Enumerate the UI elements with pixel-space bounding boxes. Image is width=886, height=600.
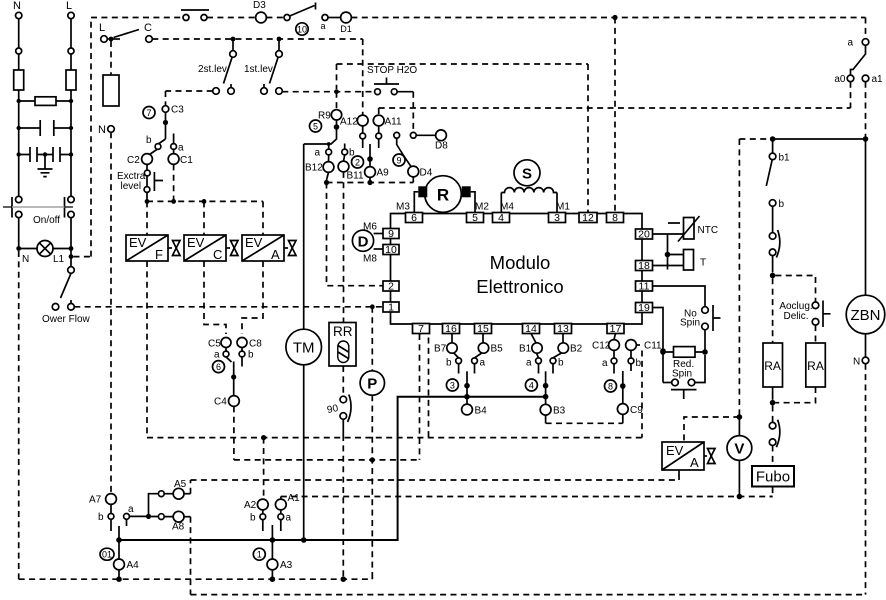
svg-text:4: 4 [498,212,504,224]
svg-text:A12: A12 [340,117,358,128]
svg-text:2: 2 [355,157,360,167]
inductor S winding [501,188,557,213]
svg-text:8: 8 [608,381,613,391]
pin 15 [475,323,492,335]
bus bottom 2 [191,594,865,596]
contact a [214,350,232,363]
motor TM [286,329,322,365]
node [341,576,347,582]
svg-text:2: 2 [388,280,394,292]
node [109,37,114,42]
wire RA1 feed [772,278,774,343]
svg-text:N: N [22,254,29,265]
bus C4/P/pin7 [234,459,420,461]
motor S [500,160,570,213]
wire to Fubo switch [772,406,774,423]
wire RA1 bottom [772,387,774,400]
pin 19 [636,302,653,314]
svg-text:C: C [213,247,222,262]
svg-text:D8: D8 [435,141,448,152]
pressure sensor P [360,371,384,395]
node [17,126,21,130]
svg-text:V: V [734,441,744,458]
svg-text:R: R [437,186,449,205]
electrovalve EV A2 [662,442,715,470]
wire [266,17,284,19]
motor TM wire [303,144,305,329]
svg-text:1st.lev: 1st.lev [244,64,273,75]
bus A5 line [191,479,680,481]
pin 5 [467,212,484,224]
wire dashed corner to V line [739,139,769,417]
svg-text:17: 17 [610,323,622,335]
wire a to A5/A8 [129,494,158,517]
node [327,142,331,146]
node [737,494,743,500]
node [660,349,666,355]
svg-text:a: a [847,38,853,49]
svg-text:a: a [526,358,532,369]
bus top L1 line [91,17,181,19]
wire pin11 to No Spin [653,286,706,307]
wire to Aoclug switch [775,276,815,302]
pin 8 [607,212,624,224]
pin 2 [383,280,399,292]
svg-text:EV: EV [129,235,147,250]
wire P feed [371,307,373,371]
thermistor NTC [668,216,718,242]
node [277,37,282,42]
svg-text:b: b [250,513,256,524]
node V top [737,414,743,420]
svg-text:D4: D4 [420,168,433,179]
pushbutton No Spin [680,305,721,331]
svg-text:Spin: Spin [680,318,700,329]
node [261,435,266,440]
svg-text:C8: C8 [249,339,262,350]
node [770,136,776,142]
wire [107,38,120,40]
wire D to pin9 [374,233,383,235]
contact b [239,350,254,367]
svg-text:A11: A11 [385,117,402,128]
thermostat T [684,250,707,271]
svg-text:01: 01 [102,549,112,559]
wire dashed to bottom bus [342,435,344,579]
contact a [320,15,328,32]
svg-text:a: a [315,148,321,159]
svg-text:C11: C11 [644,341,662,352]
node [543,383,549,389]
svg-text:C5: C5 [208,339,221,350]
label Modulo Elettronico [476,252,563,297]
switch 10 [284,3,316,36]
switch 9 [394,132,416,166]
contact b [769,199,784,233]
node [464,383,470,389]
node [202,199,207,204]
pushbutton Red Spin [663,355,705,399]
svg-text:C9: C9 [630,405,643,416]
wire EV A to C8 [242,261,263,334]
svg-text:STOP H2O: STOP H2O [367,65,417,76]
svg-text:A: A [271,247,280,262]
wire common to C4 [233,362,235,396]
svg-text:A4: A4 [127,560,140,571]
wire C4 down [233,406,235,460]
wire common 8 [622,371,624,403]
switch 90 [326,395,351,423]
wire top bus corner to a [865,18,867,39]
wire R to pin5 [471,192,475,213]
svg-text:b: b [98,512,104,523]
svg-text:RA: RA [807,359,824,373]
wire 90 down [342,419,344,435]
wire [19,90,71,155]
svg-text:B7: B7 [434,344,447,355]
wire [704,330,706,352]
svg-text:20: 20 [638,228,650,240]
wire a1 down [865,82,867,139]
contact b [146,135,161,149]
contact a [526,358,541,374]
svg-text:M6: M6 [363,222,377,233]
wire A5 to bus [190,480,192,494]
contact b [628,358,641,371]
node [770,273,776,279]
svg-text:b1: b1 [779,153,791,164]
wire pin19 down [653,308,664,383]
contact B2 [553,334,583,358]
svg-text:19: 19 [638,302,650,314]
svg-text:5: 5 [313,121,318,131]
contact B4 [462,404,488,416]
node [17,152,21,156]
diode D8 [416,130,448,152]
switch blade [766,160,772,186]
svg-text:a: a [602,358,608,369]
contact A8 [172,511,191,532]
wire to EV A2 [684,417,739,442]
wire EV C feed [203,201,205,235]
switch 7 blade [159,139,166,144]
contact box dashed border [429,338,643,438]
switch Ower Flow [42,267,91,325]
wire A12 feed [362,39,364,115]
bus EV supply [147,200,263,202]
node [370,457,375,462]
svg-text:a: a [320,21,325,31]
pressure switch 1st.lev [244,39,282,94]
switch a/a0/a1 [834,38,883,86]
svg-text:Elettronico: Elettronico [476,276,563,297]
contact C2 [127,150,157,167]
circle label 01 [100,548,114,560]
wire to switch9 [412,92,414,133]
diode D4 [408,166,433,182]
wire RA2 feed [815,325,817,343]
wire A2 feed [263,438,265,498]
svg-text:12: 12 [582,212,594,224]
thermal contact Fubo [769,420,780,448]
svg-text:Modulo: Modulo [490,252,551,273]
motor D tachometer [352,222,377,265]
wire pin20 to NTC [653,233,684,235]
svg-text:15: 15 [477,323,489,335]
thermal contact [769,230,780,273]
wire [207,17,256,19]
svg-text:b: b [558,358,564,369]
wire [70,250,72,267]
wire common 1 [271,525,273,540]
svg-text:EV: EV [187,235,205,250]
capacitor C-Y left [19,147,45,162]
lamp L1 [19,241,71,266]
svg-text:6: 6 [216,362,221,372]
svg-text:Spin: Spin [672,369,692,380]
svg-text:M3: M3 [396,202,410,213]
contact C9 [617,404,643,424]
svg-text:B12: B12 [305,163,323,174]
svg-text:Delic.: Delic. [783,311,808,322]
diode D1 [340,12,352,34]
fuse N side [103,41,119,106]
bus top to right [351,17,865,19]
pin 12 [579,212,597,224]
svg-text:b: b [446,358,452,369]
module outline [391,214,643,325]
pin 3 [549,212,566,224]
svg-text:A1: A1 [288,493,301,504]
wire stub [118,526,120,540]
bus bottom 1 [19,577,373,579]
node [69,246,74,251]
wire C1 down [173,164,175,201]
wire dashed B3-C9 [546,422,623,424]
wire N down [865,364,867,595]
svg-text:M2: M2 [475,202,489,213]
electrovalve EV A [242,235,296,262]
svg-text:7: 7 [418,323,424,335]
pin 18 [636,260,653,272]
contact R9 [318,92,342,122]
svg-text:T: T [700,258,706,269]
wire left border dashed [18,251,20,579]
wire A11 top [378,108,380,115]
contact B7 [434,334,459,358]
svg-text:4: 4 [529,380,534,390]
node [69,99,73,103]
svg-text:D3: D3 [253,0,266,11]
wire bus to pin2 [327,183,383,286]
svg-text:B4: B4 [475,406,488,417]
wire dashed link to top box [74,18,92,257]
bus L-C to levels [152,38,362,40]
contact A2 [244,499,268,511]
node [270,537,276,543]
bus pin12 box top [337,64,589,213]
connector [158,491,164,497]
resistor Red Spin bypass [663,347,705,358]
contact a [602,358,617,374]
pressure switch 2st.lev [198,39,236,94]
svg-text:Ower Flow: Ower Flow [42,314,91,325]
connector N [16,48,22,54]
contact C11 [626,340,662,358]
node [770,400,776,406]
mains terminal N [13,0,22,19]
svg-text:B5: B5 [491,344,504,355]
svg-text:5: 5 [472,212,478,224]
pushbutton Exctra level [117,164,163,201]
node [16,246,21,251]
svg-text:10: 10 [297,24,307,34]
pin 14 [523,323,540,335]
node [863,136,869,142]
svg-text:10: 10 [385,244,397,256]
wire B11 to RR [343,172,345,323]
wire [164,493,173,495]
wire [331,120,337,145]
svg-text:D: D [358,234,369,251]
svg-text:B1: B1 [519,344,532,355]
contact A7 [89,494,116,506]
svg-text:a: a [214,350,220,361]
pin 20 [636,228,653,240]
node [543,394,549,400]
contact B3 [540,404,565,416]
contact C12 [592,334,619,359]
svg-text:B11: B11 [347,171,364,182]
svg-text:3: 3 [450,380,455,390]
pushbutton STOP H2O [367,65,417,95]
wire [151,516,173,518]
resistor RA [806,343,826,387]
wire L drop [70,19,72,48]
contact C3 [162,105,184,116]
contact A5 [173,479,190,499]
contact A3 [267,540,293,579]
svg-text:2st.lev: 2st.lev [198,64,227,75]
contact A4 [114,540,140,579]
circle label 5 [310,120,322,132]
node [146,514,151,519]
contact A11 [373,115,402,148]
wire pin12 up covered, pin8 up [614,18,616,213]
svg-text:M8: M8 [363,254,377,265]
circle label 8 [605,380,617,392]
contact a [315,144,332,159]
contact C5 [208,338,231,352]
svg-text:N: N [13,0,21,12]
wire [328,17,341,19]
contact C4 [214,396,239,408]
wire EV C to C5 [204,261,226,334]
contact a [171,134,184,154]
node [116,537,122,543]
svg-text:A8: A8 [172,522,185,533]
pushbutton bridge [181,10,209,21]
contact a [124,504,134,526]
wire B12 to bus [327,172,329,180]
wire [770,446,773,497]
bus 1st.lev to R9/STOP [282,91,374,93]
pin 10 [383,244,399,256]
wire a0 down [850,82,852,108]
node [231,37,236,42]
node [69,152,73,156]
electrovalve EV C [184,235,238,262]
svg-text:1: 1 [257,550,262,560]
svg-text:a1: a1 [872,74,884,85]
pin 17 [607,323,624,335]
wire B3 link to C9 [545,415,547,423]
main bus solid [119,397,546,540]
terminal N [853,357,869,368]
wire pin18 to T [653,265,684,267]
pin 13 [555,323,572,335]
wire RR to 90 [342,366,344,396]
svg-text:EV: EV [666,443,684,458]
svg-text:C2: C2 [127,155,140,166]
bus a0 line [379,107,851,109]
relay RR [329,323,356,367]
contact b [550,358,564,374]
contact A1 [275,493,300,510]
node [620,383,626,389]
contact A9 [365,144,390,183]
node [43,152,47,156]
svg-text:R9: R9 [318,111,331,122]
node [171,199,176,204]
fuse Fubo [752,466,794,487]
contact B1 [519,334,542,358]
resistor (interference filter) [19,97,71,106]
circle label 1 [253,548,265,560]
svg-text:b: b [248,350,254,361]
svg-text:9: 9 [388,228,394,240]
svg-text:RR: RR [333,324,353,339]
wire N drop [18,19,20,48]
node [116,576,122,582]
pin 9 [383,228,399,240]
svg-text:A3: A3 [280,560,293,571]
svg-text:a: a [480,358,486,369]
fuse F-N [14,70,24,90]
contact B5 [475,334,504,358]
node [270,576,276,582]
svg-text:M1: M1 [556,202,570,213]
svg-text:1: 1 [388,301,394,313]
svg-text:7: 7 [146,108,151,118]
mains terminal L [66,0,74,19]
switch L/C line selector [99,22,152,42]
svg-text:C: C [144,22,152,34]
svg-text:On/off: On/off [33,215,60,226]
wire common 4 [545,371,547,404]
wire N to A7 [110,132,112,493]
wire [70,54,72,70]
node [370,304,375,309]
wire P down [371,395,373,579]
svg-text:b: b [779,199,785,210]
node [145,199,150,204]
svg-text:18: 18 [638,260,650,272]
contact A12 [340,115,368,148]
wire EV F feed [146,201,148,235]
bus Ower Flow to module 1 [74,306,382,308]
circle label 4 [525,379,537,391]
